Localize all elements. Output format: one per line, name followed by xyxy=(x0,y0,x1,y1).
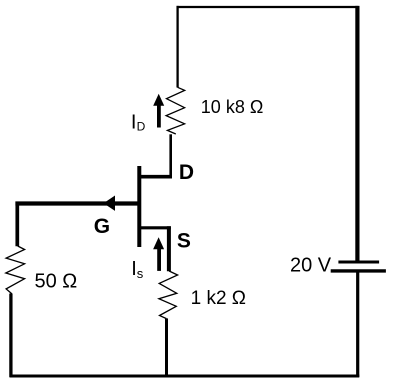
current arrow IS xyxy=(153,237,164,271)
transistor J1 channel bar xyxy=(137,166,141,247)
wire top rail xyxy=(177,6,359,8)
wire source vertical xyxy=(167,226,171,271)
svg-text:D: D xyxy=(179,161,194,184)
transistor J1 gate arrowhead xyxy=(104,196,116,211)
wire source bottom xyxy=(165,318,168,377)
svg-text:s: s xyxy=(137,266,144,281)
wire left upper (gate drop) xyxy=(15,202,19,247)
wire bottom rail xyxy=(10,375,360,378)
current arrow ID xyxy=(153,94,164,128)
wire right rail upper xyxy=(355,6,359,262)
battery V1 top plate xyxy=(338,261,379,264)
svg-text:1 k2 Ω: 1 k2 Ω xyxy=(191,288,246,309)
wire left lower xyxy=(9,294,12,378)
label ID xyxy=(131,112,146,134)
battery V1 bottom plate xyxy=(331,269,386,272)
wire right rail lower xyxy=(356,271,359,377)
resistor RS 1 k2 ohm xyxy=(159,271,178,319)
svg-text:10 k8 Ω: 10 k8 Ω xyxy=(201,97,263,117)
svg-text:G: G xyxy=(94,215,110,238)
svg-text:20 V: 20 V xyxy=(290,255,332,277)
svg-text:D: D xyxy=(137,119,146,133)
wire drain horizontal xyxy=(138,175,171,179)
resistor RD 10 k8 ohm xyxy=(166,87,185,134)
wire source horizontal xyxy=(138,226,171,229)
svg-text:S: S xyxy=(177,230,191,253)
wire gate xyxy=(15,201,139,205)
resistor RG 50 ohm xyxy=(6,246,25,294)
svg-text:50 Ω: 50 Ω xyxy=(35,271,78,293)
label IS xyxy=(131,258,144,281)
wire drain top xyxy=(176,6,178,88)
wire drain vertical xyxy=(169,134,172,178)
